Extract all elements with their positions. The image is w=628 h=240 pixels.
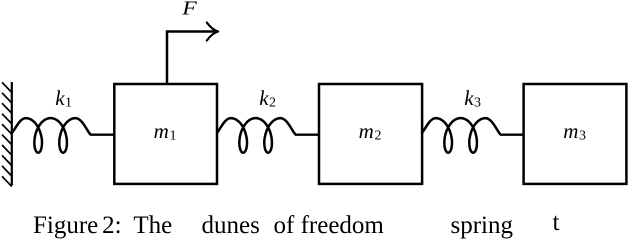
svg-text:2: 2 bbox=[269, 95, 276, 110]
mass m1 bbox=[114, 84, 217, 184]
svg-text:k: k bbox=[55, 86, 65, 110]
ground wall hatching bbox=[2, 82, 12, 186]
wire spring k2 to mass m2 bbox=[295, 134, 320, 136]
svg-text:k: k bbox=[464, 86, 474, 110]
svg-text:2: 2 bbox=[375, 129, 382, 144]
wire spring k1 to mass m1 bbox=[90, 134, 115, 136]
svg-text:3: 3 bbox=[474, 95, 481, 110]
mass m2 bbox=[319, 84, 422, 184]
svg-text:m: m bbox=[563, 119, 578, 143]
spring k2 coil bbox=[217, 118, 295, 153]
label k2 bbox=[259, 86, 276, 110]
svg-text:3: 3 bbox=[579, 129, 586, 144]
svg-text:1: 1 bbox=[65, 95, 72, 110]
svg-text:1: 1 bbox=[170, 129, 177, 144]
force F arrow line bbox=[167, 32, 215, 85]
spring k1 coil bbox=[12, 118, 90, 153]
label k1 bbox=[55, 86, 72, 110]
svg-text:F: F bbox=[181, 0, 197, 19]
svg-text:m: m bbox=[359, 119, 374, 143]
spring k3 coil bbox=[422, 118, 500, 153]
mass m3 bbox=[524, 84, 627, 184]
ground wall bbox=[11, 82, 13, 185]
figure caption (clipped at bottom edge of the image) bbox=[33, 213, 98, 238]
label m1 bbox=[154, 119, 177, 143]
svg-text:m: m bbox=[154, 119, 169, 143]
svg-text:k: k bbox=[259, 86, 269, 110]
force F arrowhead bbox=[207, 23, 218, 41]
label k3 bbox=[464, 86, 481, 110]
wire spring k3 to mass m3 bbox=[500, 134, 525, 136]
label m3 bbox=[563, 119, 586, 143]
label m2 bbox=[359, 119, 382, 143]
